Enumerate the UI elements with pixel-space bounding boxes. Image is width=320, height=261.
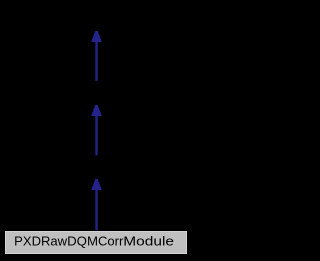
node box PXDRawDQMCorrModule (5, 231, 187, 254)
inheritance arrow 3 (bottom) (91, 179, 102, 230)
class inheritance diagram (0, 0, 192, 261)
inheritance arrow 2 (middle) (91, 105, 102, 155)
svg-text:PXDRawDQMCorrModule: PXDRawDQMCorrModule (14, 234, 174, 249)
inheritance arrow 1 (top) (91, 31, 102, 81)
